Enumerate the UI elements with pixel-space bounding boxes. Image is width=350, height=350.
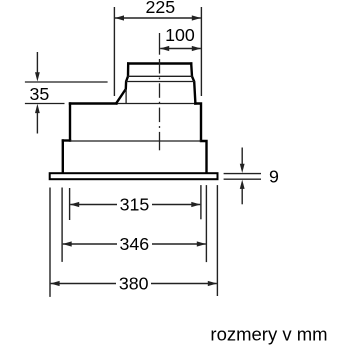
dimension 346 line xyxy=(63,241,207,246)
svg-text:9: 9 xyxy=(269,167,279,187)
dimension 315 line xyxy=(70,202,201,207)
dimension 9 lower reference line xyxy=(224,178,261,180)
dimension 35 upper arrow xyxy=(35,52,40,82)
dimension 225/100 extension line right xyxy=(200,7,202,96)
hood body upper box outline xyxy=(70,104,201,141)
collar ring line 1 xyxy=(128,75,193,77)
collar hidden edge xyxy=(125,89,127,103)
svg-text:346: 346 xyxy=(119,234,149,254)
collar ring line 2 xyxy=(126,81,195,83)
svg-text:225: 225 xyxy=(145,0,175,17)
dimension 380 line xyxy=(50,281,217,286)
dimension 35 lower arrow xyxy=(35,104,40,134)
dimension 9 upper reference line xyxy=(224,173,261,175)
hood body lower box outline xyxy=(63,141,207,173)
interior step line xyxy=(70,140,201,142)
svg-text:100: 100 xyxy=(165,25,195,45)
svg-text:380: 380 xyxy=(119,274,149,294)
bottom flange plate xyxy=(50,173,218,179)
body top hidden line under collar xyxy=(117,103,196,105)
extension line 380 right xyxy=(216,185,218,296)
dimension 100 line xyxy=(160,46,201,51)
dimension 35 upper reference line xyxy=(25,81,108,83)
dimension 225 extension line left xyxy=(113,7,115,96)
svg-text:315: 315 xyxy=(120,195,150,215)
duct collar outline xyxy=(116,64,195,104)
extension line 315 left xyxy=(69,188,71,220)
dimension 225 line xyxy=(115,15,201,20)
extension line 346 left xyxy=(61,188,63,262)
extension line 346 right xyxy=(205,185,207,262)
extension line 380 left xyxy=(49,188,51,297)
svg-text:35: 35 xyxy=(30,84,50,104)
dimension 35 lower reference line xyxy=(25,103,65,105)
svg-text:rozmery v mm: rozmery v mm xyxy=(210,323,327,344)
dimension 9 lower arrow xyxy=(240,180,245,205)
center line (dash-dot) xyxy=(159,33,161,150)
extension line 315 right xyxy=(200,185,202,219)
dimension 9 upper arrow xyxy=(240,148,245,174)
